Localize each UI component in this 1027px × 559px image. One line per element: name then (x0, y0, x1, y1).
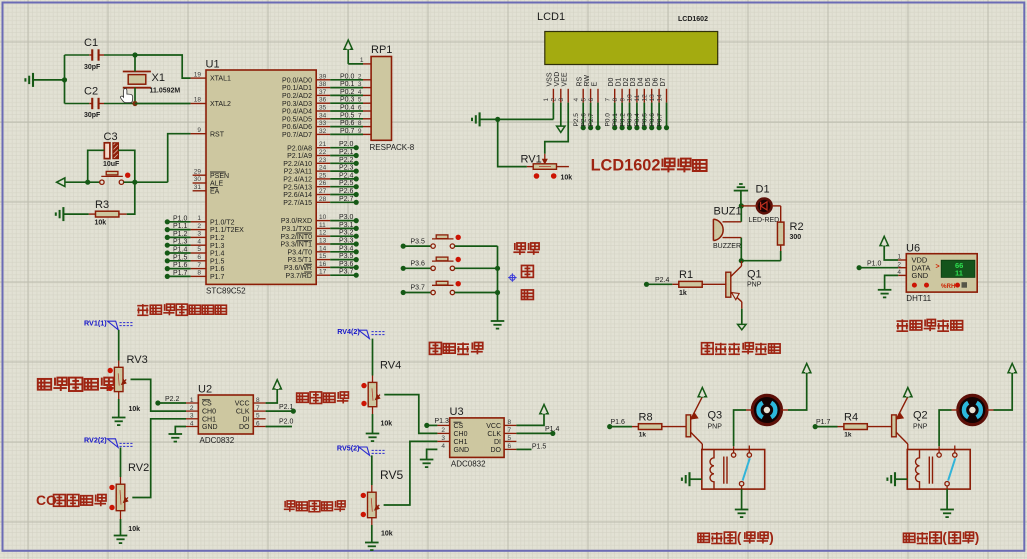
svg-text:): ) (769, 530, 773, 545)
svg-text:): ) (975, 530, 979, 545)
label 声光报警电路 (702, 343, 714, 355)
svg-text:X1: X1 (152, 72, 165, 84)
node P0.3 (634, 125, 639, 130)
wire P0.3 (330, 102, 363, 104)
svg-text:D7: D7 (660, 77, 667, 86)
svg-text:P1.4: P1.4 (545, 426, 560, 433)
dht display (941, 260, 975, 277)
svg-text:6: 6 (588, 98, 595, 102)
wire P1.3 (427, 424, 438, 426)
node P3.6 (401, 266, 406, 271)
label 烟雾值调节 (38, 379, 51, 390)
svg-text:P0.5: P0.5 (642, 113, 649, 127)
svg-text:P1.3: P1.3 (173, 239, 188, 246)
node P3.1 (354, 226, 359, 231)
node junction (62, 77, 67, 82)
node junction (739, 258, 744, 263)
svg-text:P0.3/AD3: P0.3/AD3 (282, 101, 312, 108)
wire P0.0 (614, 103, 616, 128)
svg-text:P0.7/AD7: P0.7/AD7 (282, 132, 312, 139)
node P0.4 (642, 125, 647, 130)
svg-text:STC89C52: STC89C52 (206, 287, 246, 296)
ground (940, 509, 954, 511)
svg-text:P2.7: P2.7 (588, 113, 595, 127)
crystal X1 (123, 71, 151, 73)
svg-text:XTAL2: XTAL2 (210, 101, 231, 108)
svg-text:VCC: VCC (235, 401, 250, 408)
wire P0.6 (658, 103, 660, 128)
wire P1.6 (167, 268, 190, 270)
wire P1.4 (516, 432, 552, 434)
svg-text:P2.4: P2.4 (655, 277, 670, 284)
svg-text:P2.6: P2.6 (580, 113, 587, 127)
relay contacts (733, 446, 735, 453)
wire P2.1 (330, 155, 356, 157)
svg-text:RV4(2): RV4(2) (337, 327, 360, 336)
svg-text:5: 5 (358, 97, 362, 104)
wire P3.6 (403, 267, 431, 269)
svg-text:P3.6: P3.6 (411, 261, 426, 268)
svg-text:P3.4: P3.4 (339, 245, 354, 252)
node P3.2 (354, 234, 359, 239)
wire P2.1 (266, 410, 294, 412)
wire P3.4 (330, 251, 356, 253)
label 独立按键 (429, 342, 441, 354)
wire (895, 478, 907, 480)
svg-text:P2.5: P2.5 (573, 113, 580, 127)
wire P0.4 (330, 110, 363, 112)
wire (127, 182, 135, 214)
node P3.0 (354, 218, 359, 223)
svg-text:ALE: ALE (210, 181, 224, 188)
svg-text:RV4: RV4 (380, 360, 401, 372)
label 单片机最小系统 (137, 304, 148, 315)
ground (62, 207, 64, 221)
svg-text:BUZZER: BUZZER (713, 243, 741, 250)
label settings 设置 (513, 243, 525, 255)
svg-text:10k: 10k (95, 220, 107, 227)
svg-text:10k: 10k (129, 406, 141, 413)
wire RV2 wiper to U2 CH1 (132, 419, 186, 498)
svg-text:P0.0: P0.0 (605, 113, 612, 127)
svg-text:RV5: RV5 (380, 468, 403, 482)
svg-text:10k: 10k (381, 421, 393, 428)
wire (371, 518, 373, 525)
ground (32, 73, 34, 87)
svg-text:4: 4 (358, 89, 362, 96)
ground (169, 433, 183, 435)
svg-text:P1.0: P1.0 (867, 261, 882, 268)
svg-text:C1: C1 (84, 37, 98, 49)
svg-text:2: 2 (551, 98, 558, 102)
wire P0.2 (629, 103, 631, 128)
svg-text:RESPACK-8: RESPACK-8 (370, 143, 415, 152)
svg-text:8: 8 (197, 270, 201, 277)
wire P1.3 (167, 244, 190, 246)
wire P2.0 (266, 426, 292, 428)
svg-text:VSS: VSS (547, 72, 554, 86)
svg-text:P3.6: P3.6 (339, 261, 354, 268)
svg-text:LCD1: LCD1 (537, 11, 565, 23)
svg-text:RV5(2): RV5(2) (337, 444, 360, 453)
svg-text:P1.0/T2: P1.0/T2 (210, 219, 235, 226)
svg-text:P1.3: P1.3 (435, 418, 450, 425)
svg-text:3: 3 (358, 81, 362, 88)
button state dot (456, 281, 461, 286)
svg-text:CLK: CLK (487, 431, 501, 438)
wire (33, 79, 65, 81)
relay lever (948, 458, 955, 480)
svg-text:C3: C3 (104, 131, 118, 143)
wire P0.7 (666, 103, 668, 128)
ground (878, 289, 892, 291)
svg-text:10k: 10k (128, 526, 140, 533)
wire P2.4 (647, 283, 673, 285)
svg-text:D1: D1 (756, 184, 770, 196)
wire (741, 309, 743, 325)
svg-text:P2.0: P2.0 (339, 141, 354, 148)
wire RST (168, 134, 191, 183)
motor (958, 395, 987, 424)
svg-text:P0.7: P0.7 (656, 113, 663, 127)
node P2.1 (354, 153, 359, 158)
wire (455, 267, 498, 269)
ground (688, 472, 690, 486)
relay (907, 450, 970, 490)
svg-text:RV1(1): RV1(1) (84, 318, 107, 327)
wire P3.2 (330, 235, 356, 237)
svg-text:P0.5: P0.5 (340, 112, 355, 119)
svg-text:P2.2: P2.2 (165, 396, 180, 403)
node P2.0 (354, 145, 359, 150)
svg-text:P0.6: P0.6 (649, 113, 656, 127)
svg-text:P1.4: P1.4 (173, 247, 188, 254)
svg-text:CH0: CH0 (202, 409, 216, 416)
node junction (132, 101, 137, 106)
svg-text:ADC0832: ADC0832 (451, 460, 486, 469)
svg-text:13: 13 (649, 94, 656, 102)
svg-text:30: 30 (194, 176, 202, 183)
svg-text:BUZ1: BUZ1 (714, 206, 742, 218)
svg-text:RP1: RP1 (371, 44, 392, 56)
node P3.7 (401, 290, 406, 295)
svg-text:%RH: %RH (941, 283, 956, 290)
wire VEE to RV1 wiper (545, 103, 568, 154)
wire (498, 119, 527, 166)
wire RV5 wiper to U3 CH1 (384, 441, 438, 505)
svg-text:LCD1602: LCD1602 (678, 16, 708, 23)
wire P0.7 (330, 133, 363, 135)
mouse cursor icon (120, 89, 132, 103)
node P3.4 (354, 249, 359, 254)
svg-text:GND: GND (912, 271, 929, 280)
svg-text:(: ( (942, 530, 947, 545)
node P1.1 (165, 227, 170, 232)
node P1.2 (165, 235, 170, 240)
wire U3 GND to ground (427, 449, 438, 459)
wire P2.2 (330, 162, 356, 164)
power +5V (803, 363, 811, 372)
svg-text:4: 4 (197, 238, 201, 245)
svg-text:P1.1/T2EX: P1.1/T2EX (210, 227, 244, 234)
svg-text:E: E (591, 82, 598, 87)
wire P2.5 (582, 103, 584, 128)
svg-text:P1.3: P1.3 (210, 243, 225, 250)
reset button (100, 180, 104, 184)
node junction (495, 117, 500, 122)
label 甲醛值调节 (284, 501, 295, 512)
svg-text:P1.6: P1.6 (173, 262, 188, 269)
svg-text:7: 7 (605, 98, 612, 102)
svg-text:P2.6: P2.6 (339, 188, 354, 195)
svg-text:19: 19 (194, 71, 202, 78)
svg-text:P1.7: P1.7 (210, 274, 225, 281)
wire P2.6 (330, 194, 356, 196)
wire P2.6 (590, 103, 592, 128)
svg-text:11.0592M: 11.0592M (150, 88, 181, 95)
power +5V (273, 380, 281, 389)
svg-text:PNP: PNP (708, 423, 723, 430)
wire (690, 478, 702, 480)
wire P2.7 (597, 103, 599, 128)
wire motor left (952, 409, 958, 411)
svg-text:7: 7 (358, 112, 362, 119)
svg-text:P3.5: P3.5 (411, 238, 426, 245)
svg-text:U3: U3 (450, 406, 464, 418)
node P1.3 (424, 423, 429, 428)
node P2.5 (581, 125, 586, 130)
node P0.0 (612, 125, 617, 130)
node P0.6 (657, 125, 662, 130)
wire P3.7 (330, 274, 356, 276)
svg-text:12: 12 (642, 94, 649, 102)
svg-text:D3: D3 (630, 77, 637, 86)
svg-text:D0: D0 (608, 77, 615, 86)
svg-text:P0.0: P0.0 (340, 73, 355, 80)
svg-text:LCD1602: LCD1602 (591, 157, 661, 175)
svg-text:R2: R2 (790, 221, 804, 233)
svg-text:3: 3 (190, 413, 194, 420)
wire (63, 213, 88, 215)
wire P3.5 (403, 245, 431, 247)
svg-text:P2.1/A9: P2.1/A9 (287, 153, 312, 160)
wire (88, 150, 105, 182)
wire (134, 55, 136, 72)
svg-text:2: 2 (358, 73, 362, 80)
svg-text:11: 11 (955, 269, 963, 278)
svg-text:P0.1: P0.1 (340, 81, 355, 88)
svg-text:10: 10 (627, 94, 634, 102)
svg-text:R3: R3 (95, 199, 109, 211)
node P1.7 (813, 424, 818, 429)
label 继电器 通风 (698, 533, 709, 542)
svg-text:RV2(2): RV2(2) (84, 435, 107, 444)
wire U6 GND (885, 275, 899, 289)
svg-text:P3.7: P3.7 (339, 269, 354, 276)
wire (740, 206, 742, 222)
wire (124, 181, 168, 183)
svg-text:CLK: CLK (236, 409, 250, 416)
wire P1.1 (167, 229, 190, 231)
button P3.6 (431, 266, 435, 270)
terminal arrow down (738, 324, 746, 329)
ground (420, 459, 434, 461)
wire (120, 447, 122, 477)
svg-text:DHT11: DHT11 (906, 294, 931, 303)
wire P3.5 (330, 259, 356, 261)
svg-text:U2: U2 (198, 384, 212, 396)
svg-text:P3.3: P3.3 (339, 238, 354, 245)
svg-text:4: 4 (441, 443, 445, 450)
svg-text:Q3: Q3 (708, 410, 723, 422)
label minus 减 (521, 290, 533, 299)
svg-text:30pF: 30pF (84, 112, 101, 119)
svg-text:P3.2: P3.2 (339, 230, 354, 237)
ground (735, 509, 749, 511)
node P2.5 (354, 184, 359, 189)
terminal arrow left (57, 178, 65, 187)
wire (120, 511, 122, 519)
svg-text:P0.4: P0.4 (340, 105, 355, 112)
svg-text:XTAL1: XTAL1 (210, 76, 231, 83)
svg-text:DI: DI (243, 416, 250, 423)
svg-text:3: 3 (197, 231, 201, 238)
wire P0.5 (330, 118, 363, 120)
relay (702, 450, 765, 490)
wire P2.2 (158, 402, 186, 404)
node P3.7 (354, 273, 359, 278)
wire P0.3 (636, 103, 638, 128)
svg-text:P1.2: P1.2 (210, 235, 225, 242)
svg-text:P2.6/A14: P2.6/A14 (283, 192, 312, 199)
wire (371, 455, 373, 485)
svg-text:9: 9 (197, 127, 201, 134)
wire XTAL1 (135, 55, 191, 78)
node P2.7 (595, 125, 600, 130)
ground (366, 433, 380, 435)
svg-text:P0.7: P0.7 (340, 128, 355, 135)
svg-text:U6: U6 (906, 243, 920, 255)
svg-text:P0.6/AD6: P0.6/AD6 (282, 124, 312, 131)
svg-text:P1.1: P1.1 (173, 223, 188, 230)
svg-text:PNP: PNP (747, 281, 762, 288)
relay contacts (938, 446, 940, 453)
wire P2.3 (330, 170, 356, 172)
svg-text:P2.7/A15: P2.7/A15 (283, 200, 312, 207)
node P2.6 (354, 192, 359, 197)
wire (118, 392, 120, 399)
svg-text:4: 4 (573, 98, 580, 102)
wire (372, 339, 374, 376)
svg-text:P1.0: P1.0 (173, 215, 188, 222)
svg-text:P2.2/A10: P2.2/A10 (283, 161, 312, 168)
svg-text:P0.2: P0.2 (619, 113, 626, 127)
resistor R2 (780, 206, 782, 222)
wire P0.0 (330, 79, 363, 81)
wire P0.4 (643, 103, 645, 128)
svg-text:P0.3: P0.3 (340, 97, 355, 104)
node P2.1 (291, 409, 296, 414)
wire motor left (746, 409, 752, 411)
power +5V (540, 405, 548, 414)
node P2.3 (354, 169, 359, 174)
svg-text:EA: EA (210, 188, 220, 195)
wire (780, 251, 782, 261)
svg-text:CH0: CH0 (454, 431, 468, 438)
svg-text:P3.5/T1: P3.5/T1 (287, 257, 312, 264)
wire P3.7 (403, 292, 431, 294)
ground (734, 190, 748, 192)
node P2.6 (588, 125, 593, 130)
wire XTAL2 (135, 103, 191, 105)
motor (752, 395, 781, 424)
node junction (495, 266, 500, 271)
svg-text:9: 9 (358, 128, 362, 135)
svg-text:1: 1 (543, 98, 550, 102)
wire (740, 191, 742, 206)
node P1.3 (165, 243, 170, 248)
svg-text:3: 3 (558, 98, 565, 102)
label 继电器 净化 (903, 533, 914, 542)
svg-text:1k: 1k (639, 432, 647, 439)
svg-text:P1.6: P1.6 (611, 419, 626, 426)
power +5V (880, 236, 888, 245)
wiper arrow RV1 (544, 154, 546, 162)
wire U2 GND to ground (186, 426, 198, 428)
svg-text:P0.2: P0.2 (340, 89, 355, 96)
svg-text:7: 7 (197, 262, 201, 269)
wire P2.5 (330, 186, 356, 188)
svg-text:>: > (936, 263, 940, 270)
svg-text:DO: DO (491, 447, 502, 454)
svg-text:P2.4/A12: P2.4/A12 (283, 177, 312, 184)
wire P0.6 (330, 126, 363, 128)
button state dot (456, 235, 461, 240)
capacitor C1 (65, 54, 90, 56)
wire P1.0 (859, 267, 898, 269)
node P2.4 (644, 282, 649, 287)
ground (114, 535, 128, 537)
node P2.7 (354, 200, 359, 205)
node P1.6 (607, 424, 612, 429)
wire (65, 181, 100, 183)
svg-text:10uF: 10uF (103, 161, 120, 168)
svg-text:CH1: CH1 (202, 416, 216, 423)
svg-text:P1.6: P1.6 (210, 266, 225, 273)
node P1.0 (857, 265, 862, 270)
svg-text:2: 2 (197, 223, 201, 230)
wire P3.3 (330, 243, 356, 245)
svg-text:D6: D6 (652, 77, 659, 86)
svg-text:R1: R1 (679, 269, 693, 281)
svg-text:P1.5: P1.5 (210, 258, 225, 265)
power +5V (698, 388, 706, 397)
wire P1.6 (610, 426, 632, 428)
svg-text:P0.2/AD2: P0.2/AD2 (282, 93, 312, 100)
svg-text:6: 6 (358, 105, 362, 112)
svg-text:P0.1: P0.1 (612, 113, 619, 127)
button P3.7 (431, 290, 435, 294)
wire P3.0 (330, 220, 356, 222)
svg-text:P3.0/RXD: P3.0/RXD (281, 218, 312, 225)
svg-text:P0.1/AD1: P0.1/AD1 (282, 85, 312, 92)
svg-text:GND: GND (454, 447, 470, 454)
svg-text:1: 1 (360, 57, 364, 64)
power +5V (344, 40, 352, 49)
svg-text:RS: RS (577, 76, 584, 86)
svg-text:RST: RST (210, 131, 225, 138)
ground (112, 417, 126, 419)
